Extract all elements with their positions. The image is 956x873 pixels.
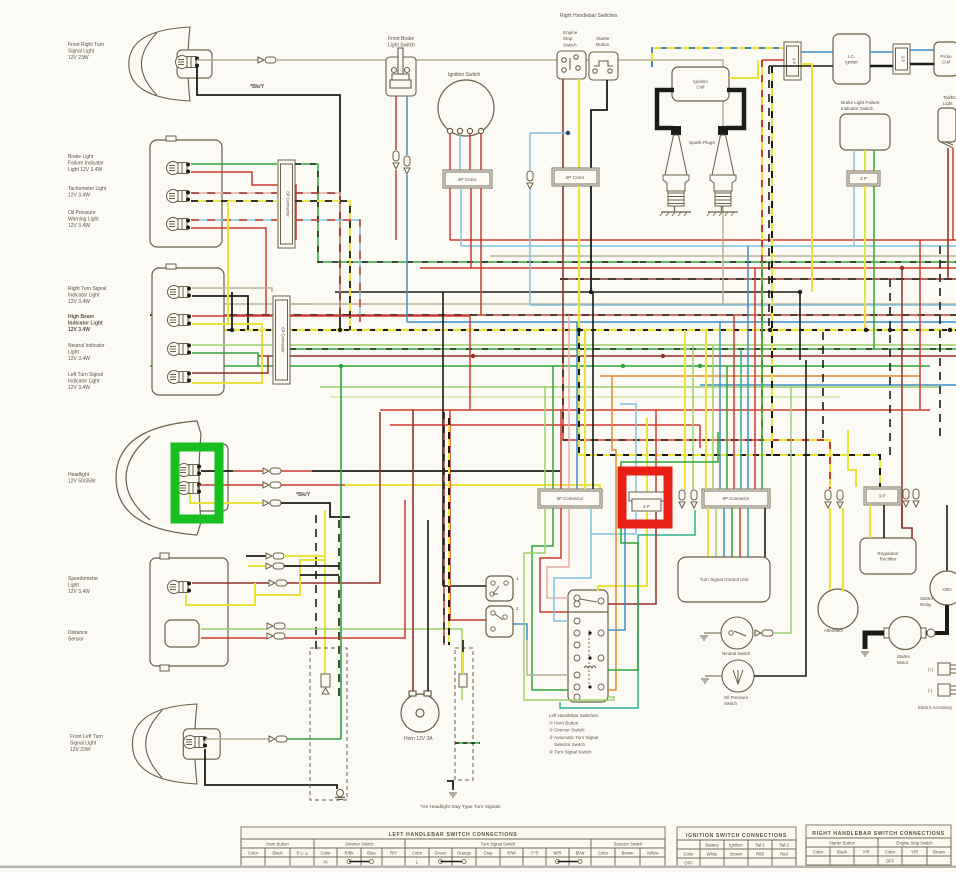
svg-text:Tail 1: Tail 1	[755, 843, 765, 848]
wire Lb top run	[461, 245, 956, 247]
svg-text:Red: Red	[780, 852, 788, 857]
wire v6p1 #cc3a2d 561	[560, 410, 562, 489]
junction jr2	[471, 354, 475, 358]
front brake light switch	[386, 48, 416, 96]
wire fbs blue cont	[406, 175, 408, 322]
neutral switch	[721, 617, 753, 649]
wire b1 green	[191, 163, 277, 165]
wire v6p1 #1c1c16 593	[592, 292, 594, 489]
wire v6p2 #2fae8f 741	[740, 349, 742, 489]
wire v6p2 #cc3a2d 755	[754, 268, 756, 489]
wire v red 920	[919, 240, 921, 410]
connector ds conn1	[267, 623, 285, 629]
turn signal stay dashed box right	[455, 648, 473, 780]
table ignition switch connections	[677, 827, 796, 868]
red highlight marker	[622, 471, 668, 524]
wire black stay drop	[315, 515, 317, 650]
svg-text:StarterButton: StarterButton	[596, 36, 610, 47]
svg-text:Color: Color	[412, 851, 423, 856]
wire ic black left	[769, 65, 833, 67]
connector 3P conn B	[893, 44, 910, 74]
wire coil top yellow	[729, 60, 758, 78]
wire Or run	[600, 375, 920, 377]
wire sb black	[591, 80, 607, 168]
wire dimmer blue out	[513, 624, 527, 640]
svg-text:Selector Switch: Selector Switch	[614, 842, 644, 847]
wire v6p2 #2ea43a 762	[761, 262, 763, 489]
svg-text:タショ: タショ	[296, 850, 309, 857]
junction ja	[338, 328, 342, 332]
wire b3 blue	[191, 219, 277, 221]
svg-text:6P Connector: 6P Connector	[723, 496, 750, 501]
svg-text:Gray: Gray	[483, 851, 493, 856]
left handlebar switch box	[568, 590, 608, 702]
bulb right turn ind bulb	[168, 286, 192, 299]
wire speedo yellow	[186, 583, 255, 605]
wire yellow nest right	[598, 512, 647, 591]
wire black stay drop2	[338, 520, 340, 700]
wire reg yellow	[869, 505, 871, 538]
wire blue from lhb	[608, 508, 625, 630]
wire green nest	[532, 508, 568, 690]
svg-text:Y/R: Y/R	[863, 850, 870, 855]
svg-text:Regulator/Rectifier: Regulator/Rectifier	[877, 551, 899, 562]
wire G long run	[150, 365, 930, 367]
svg-text:Color: Color	[248, 851, 259, 856]
connector 6P connector upper	[278, 160, 295, 248]
svg-text:3 P: 3 P	[643, 504, 650, 509]
connector speedo conn	[269, 580, 287, 586]
svg-text:Dimmer Switch: Dimmer Switch	[345, 842, 374, 847]
svg-text:Ignition: Ignition	[729, 843, 743, 848]
junction es dot	[566, 131, 570, 135]
wire Dr dashed run	[560, 278, 956, 280]
wire Lg run	[290, 344, 956, 346]
bulb left turn ind bulb	[168, 371, 192, 384]
wire ds lightgreen	[201, 628, 267, 630]
spark plug 1	[660, 135, 691, 216]
wire v6p1 #e9aca4 569	[568, 315, 570, 489]
wire hl row3 black cont	[281, 503, 350, 517]
wire v black 800	[799, 292, 801, 360]
svg-text:3 P: 3 P	[860, 176, 867, 181]
wire c1 blue cont	[295, 220, 360, 322]
wire b6 green	[192, 353, 258, 366]
wire Y-Bk main run	[188, 329, 956, 331]
wire orange nest	[608, 376, 616, 690]
connector 6P connector c2	[702, 489, 770, 508]
wire hl row1 red	[233, 470, 263, 472]
wire v yellow 647	[646, 418, 648, 492]
wire yr vertical	[762, 60, 830, 489]
wire G dashed run	[640, 261, 956, 263]
wire stay r green dash	[455, 742, 480, 744]
wire hl row1 black lead	[201, 470, 233, 472]
wire v6p2 #3e8ec6 748	[747, 246, 749, 489]
svg-text:Alternator: Alternator	[824, 628, 844, 633]
wire ds red	[201, 637, 267, 639]
wire tail darkred2	[952, 148, 954, 240]
wire b2 pink	[191, 192, 277, 194]
wire ops ground lead	[705, 675, 722, 677]
wire tscu feed 732	[731, 508, 733, 557]
wire stay black loop	[284, 565, 339, 567]
svg-text:Black: Black	[272, 851, 283, 856]
junction jg1	[621, 364, 625, 368]
svg-text:Black: Black	[837, 850, 848, 855]
alternator	[818, 589, 858, 629]
wire lightblue nest2	[554, 534, 591, 621]
svg-text:(+): (+)	[928, 667, 934, 672]
wire lamp1 Bk/Y	[197, 66, 340, 330]
svg-text:Electric Accessory: Electric Accessory	[918, 705, 953, 710]
wire rbk loop bottom	[563, 356, 762, 440]
wire ign red3 d	[480, 188, 482, 315]
wire speedo black jog	[300, 574, 339, 576]
connector 3P blfs	[847, 171, 880, 186]
svg-text:3 P: 3 P	[901, 56, 906, 62]
IC igniter	[833, 34, 870, 84]
wire R run lower	[380, 409, 930, 411]
wire stay r yellow	[462, 652, 464, 674]
wire speedo yellow2	[255, 560, 325, 595]
wire es red	[562, 79, 564, 168]
svg-text:HI: HI	[323, 860, 327, 865]
connector lamp2 conn	[269, 736, 287, 742]
bulb oil warning bulb	[167, 218, 191, 231]
wire ns ground lead	[704, 632, 721, 634]
junction jg3	[339, 364, 343, 368]
svg-text:Color: Color	[885, 850, 896, 855]
svg-text:Horn Button: Horn Button	[266, 842, 289, 847]
bulb front right turn bulb	[176, 56, 200, 69]
wire tscu feed 740	[739, 508, 741, 557]
svg-text:Ignition Switch: Ignition Switch	[448, 72, 480, 78]
wire lb to es	[530, 132, 568, 134]
wire c2 tan cont	[290, 303, 310, 305]
svg-text:R/Bl: R/Bl	[756, 852, 764, 857]
svg-text:R/Bk: R/Bk	[344, 851, 354, 856]
connector bv2	[691, 490, 697, 508]
connector hl conn1	[263, 468, 281, 474]
wire v black 443	[442, 292, 444, 586]
wire teal nest	[560, 510, 695, 708]
wire R top run	[450, 239, 956, 241]
wire lamp2 black	[205, 749, 337, 789]
svg-text:Brown: Brown	[622, 851, 635, 856]
connector fbs conn1	[393, 151, 399, 169]
wire ic-3p black	[870, 65, 893, 68]
wire lightblue stub 404	[620, 403, 637, 405]
wire blfs yl	[864, 150, 866, 171]
connector 3P connector right	[864, 487, 900, 505]
plug cap 2	[718, 126, 728, 135]
svg-text:White: White	[707, 852, 718, 857]
wire ign red1	[449, 134, 451, 170]
wire fbs blue	[406, 96, 408, 155]
battery terminal plus	[938, 663, 956, 675]
starter button	[589, 52, 618, 80]
brake light failure switch	[840, 114, 890, 150]
wire v6p1 #3e8ec6 577	[576, 322, 578, 489]
wire b4 tan	[192, 288, 272, 292]
wire v black 940	[939, 246, 941, 440]
svg-text:Brown: Brown	[730, 852, 743, 857]
svg-text:Horn 12V 3A: Horn 12V 3A	[404, 736, 433, 742]
ground stay r ground	[449, 793, 457, 797]
svg-text:Spark Plugs: Spark Plugs	[689, 140, 715, 146]
junction jc	[768, 328, 772, 332]
svg-text:Color: Color	[683, 852, 694, 857]
starter relay	[930, 571, 956, 605]
scan edge strip	[0, 866, 956, 869]
svg-text:R/Y: R/Y	[390, 851, 397, 856]
wire tscu feed 748	[747, 508, 749, 557]
wire hl row1 black cont	[312, 470, 560, 472]
lamp front right turn signal	[129, 27, 212, 101]
junction jr3	[900, 266, 904, 270]
wire horn darkred	[412, 410, 414, 691]
wire stay lead yellow b	[248, 565, 266, 567]
wire green right nest	[608, 432, 718, 670]
svg-text:6P Connector: 6P Connector	[281, 327, 286, 353]
svg-text:Color: Color	[813, 850, 824, 855]
wire blfs lb	[853, 150, 855, 171]
junction lhb dot 633	[588, 631, 591, 634]
svg-text:Yellow: Yellow	[647, 851, 660, 856]
wire R-Bk dashed run	[150, 314, 956, 316]
wire c1 pink cont	[295, 193, 340, 315]
wire b6 lightgreen	[192, 344, 272, 346]
engine stop switch	[557, 51, 586, 79]
wire ybk vertical	[772, 66, 880, 487]
wire v darkred 902	[901, 268, 903, 528]
connector 6P connector lower	[273, 296, 290, 384]
svg-text:6P Connector: 6P Connector	[286, 191, 291, 217]
connector stay conn a	[266, 553, 284, 559]
svg-text:3 P: 3 P	[792, 58, 797, 64]
wire lightgreen nest	[524, 508, 614, 700]
wire v black 890	[889, 279, 891, 455]
wire b1 red drop	[191, 172, 296, 240]
speedometer box	[150, 558, 228, 666]
wire b4 black jog	[192, 296, 248, 330]
table right handlebar connections	[806, 825, 951, 868]
pickup coil	[934, 42, 956, 76]
svg-text:(-): (-)	[928, 688, 933, 693]
wire Bl run	[407, 321, 956, 323]
plug cap 1	[671, 126, 681, 135]
wire tscu feed 724	[723, 508, 725, 557]
starter motor	[889, 617, 922, 650]
wire v black 823	[822, 332, 824, 442]
wire stay r black	[462, 640, 464, 652]
wire blfs yl d	[864, 186, 866, 330]
svg-text:1.: 1.	[516, 576, 520, 581]
svg-text:Right Handlebar Switches: Right Handlebar Switches	[560, 13, 618, 19]
wire Bk long run	[335, 291, 800, 293]
connector bv6	[913, 489, 919, 507]
junction jd	[864, 328, 868, 332]
ground starter ground	[861, 652, 869, 656]
svg-text:3 P: 3 P	[879, 494, 886, 499]
connector 2P red-marked	[629, 492, 664, 511]
svg-text:Blue: Blue	[367, 851, 376, 856]
wire ds lightgreen cont	[285, 629, 462, 700]
svg-text:Color: Color	[598, 851, 609, 856]
svg-text:Starter Button: Starter Button	[829, 841, 856, 846]
ignition switch	[438, 80, 494, 136]
ignition coil	[672, 67, 729, 101]
fuse right stay	[459, 674, 467, 687]
indicator box 1	[150, 140, 222, 247]
wire G-Bk dashed run	[290, 348, 956, 350]
connector ds conn2	[267, 633, 285, 639]
wire dimmer red in	[450, 410, 486, 620]
wire pink nest	[547, 508, 569, 598]
junction j box2	[230, 328, 234, 332]
regulator rectifier	[860, 538, 916, 574]
connector bv4	[837, 490, 843, 508]
wire hl row2 yellow cont	[345, 485, 600, 508]
connector fbs conn2	[404, 156, 410, 174]
svg-text:-000-: -000-	[942, 587, 953, 592]
bulb front left turn bulb	[184, 736, 208, 749]
svg-text:Front BrakeLight Switch: Front BrakeLight Switch	[388, 36, 415, 49]
battery terminal minus	[938, 684, 956, 696]
wire ign red1 d	[449, 188, 451, 240]
wire ops black	[754, 360, 806, 676]
wire tail darkred	[947, 148, 949, 279]
svg-text:Bl/W: Bl/W	[576, 851, 585, 856]
connector stay conn b	[266, 563, 284, 569]
wire fbs red	[395, 96, 397, 150]
spark plug 2	[707, 135, 738, 216]
wire tscu feed 765	[764, 508, 766, 557]
wire tan nest	[527, 640, 568, 675]
svg-text:*Bk/Y: *Bk/Y	[250, 84, 265, 90]
junction lhb dot 658	[588, 656, 591, 659]
junction jf	[948, 328, 952, 332]
junction jb	[577, 328, 581, 332]
horn button switch	[486, 576, 513, 601]
wire rear RBk dash	[443, 412, 445, 645]
svg-text:IGNITION SWITCH CONNECTIONS: IGNITION SWITCH CONNECTIONS	[686, 833, 787, 839]
junction lhb dot 687	[588, 685, 591, 688]
bulb headlight bulb low	[178, 482, 202, 495]
wire coil top yb	[652, 48, 784, 67]
fuse left stay	[321, 674, 330, 687]
bulb speedometer bulb	[168, 581, 192, 594]
svg-text:W/R: W/R	[553, 851, 561, 856]
table left handlebar connections	[241, 827, 665, 868]
dimmer switch box	[486, 606, 513, 637]
wire darkred from lhb	[608, 512, 656, 604]
wire coil hot left	[657, 90, 674, 128]
svg-text:Y/R: Y/R	[911, 850, 918, 855]
oil pressure switch	[722, 660, 754, 692]
ground ns ground	[700, 636, 708, 640]
bulb neutral ind bulb	[168, 343, 192, 356]
wire stay r black L	[447, 781, 453, 790]
svg-text:Neutral Switch: Neutral Switch	[722, 651, 751, 656]
svg-text:4P Conn.: 4P Conn.	[458, 177, 478, 183]
turn signal stay dashed box left	[310, 648, 347, 800]
wire horn sw black	[443, 585, 486, 587]
wire red stub 3p	[762, 59, 784, 61]
wire c1 green cont	[295, 164, 640, 262]
wire alt yellow 1	[829, 508, 831, 590]
wire red drop 700	[699, 425, 701, 448]
wire v6p1 #2ea43a 553	[552, 366, 554, 489]
indicator box 2	[152, 268, 224, 395]
svg-text:Engine Stop Switch: Engine Stop Switch	[896, 841, 933, 846]
junction jg	[589, 290, 593, 294]
wire lb down	[529, 133, 531, 170]
bulb headlight bulb high	[178, 464, 202, 477]
connector 3P conn A	[784, 42, 801, 80]
wire b2 yellow	[191, 200, 277, 202]
svg-text:Turn Signal Switch: Turn Signal Switch	[481, 842, 516, 847]
wire b5 red	[192, 315, 272, 317]
wire coil hot right	[726, 90, 744, 128]
tail light	[938, 108, 956, 142]
wire 3p-pc blue	[910, 49, 934, 51]
wire v6p2 #3e8ec6 720	[719, 322, 721, 489]
wire sb black d	[590, 186, 592, 292]
wire b7 darkred	[192, 356, 268, 373]
connector 6P connector c1	[538, 489, 602, 508]
wire ds red cont	[285, 500, 405, 638]
wire es yellow	[578, 79, 580, 168]
wire starter cable	[865, 633, 884, 649]
connector bv5	[903, 489, 909, 507]
wire blfs lb d	[853, 186, 855, 246]
wire ybk loop bottom	[579, 330, 880, 487]
wire stay lead black a	[246, 555, 266, 557]
wire c1 yellow cont	[295, 201, 350, 330]
connector 4P conn right	[552, 168, 599, 186]
wire 3p-ic blue	[801, 51, 833, 53]
wire v6p2 lg 693	[692, 345, 694, 490]
wire reg black	[883, 505, 885, 538]
wire lightblue nest	[591, 508, 636, 534]
wire v6p2 yellow 685	[684, 330, 686, 490]
wire 3p-pc black	[910, 63, 934, 66]
wire blfs gn	[873, 150, 875, 171]
svg-text:Orange: Orange	[457, 851, 472, 856]
wire ign red2 d	[470, 188, 472, 268]
wire Lb run 305	[530, 304, 956, 306]
connector lb conn	[527, 171, 533, 189]
wire rear YBk dash	[448, 418, 450, 645]
svg-text:*Bk/Y: *Bk/Y	[296, 492, 311, 498]
wire tscu feed 708	[707, 508, 709, 557]
wire speedo darkred cont	[287, 412, 380, 583]
wire lamp1 lead tan	[197, 59, 258, 61]
wire ign lightblue	[459, 134, 461, 170]
bulb high beam ind bulb	[168, 314, 192, 327]
wire v6p2 #2ea43a 727	[726, 366, 728, 489]
connector ns conn	[755, 630, 773, 636]
wire R short 425	[390, 424, 700, 426]
wire ign red3	[480, 134, 482, 170]
horn	[401, 691, 439, 732]
wire R run 268	[420, 267, 956, 269]
wire 3p yellow out	[801, 64, 812, 292]
wire lamp2 green cont	[287, 738, 341, 740]
wire v6p2 #eae23a 706	[705, 330, 707, 489]
